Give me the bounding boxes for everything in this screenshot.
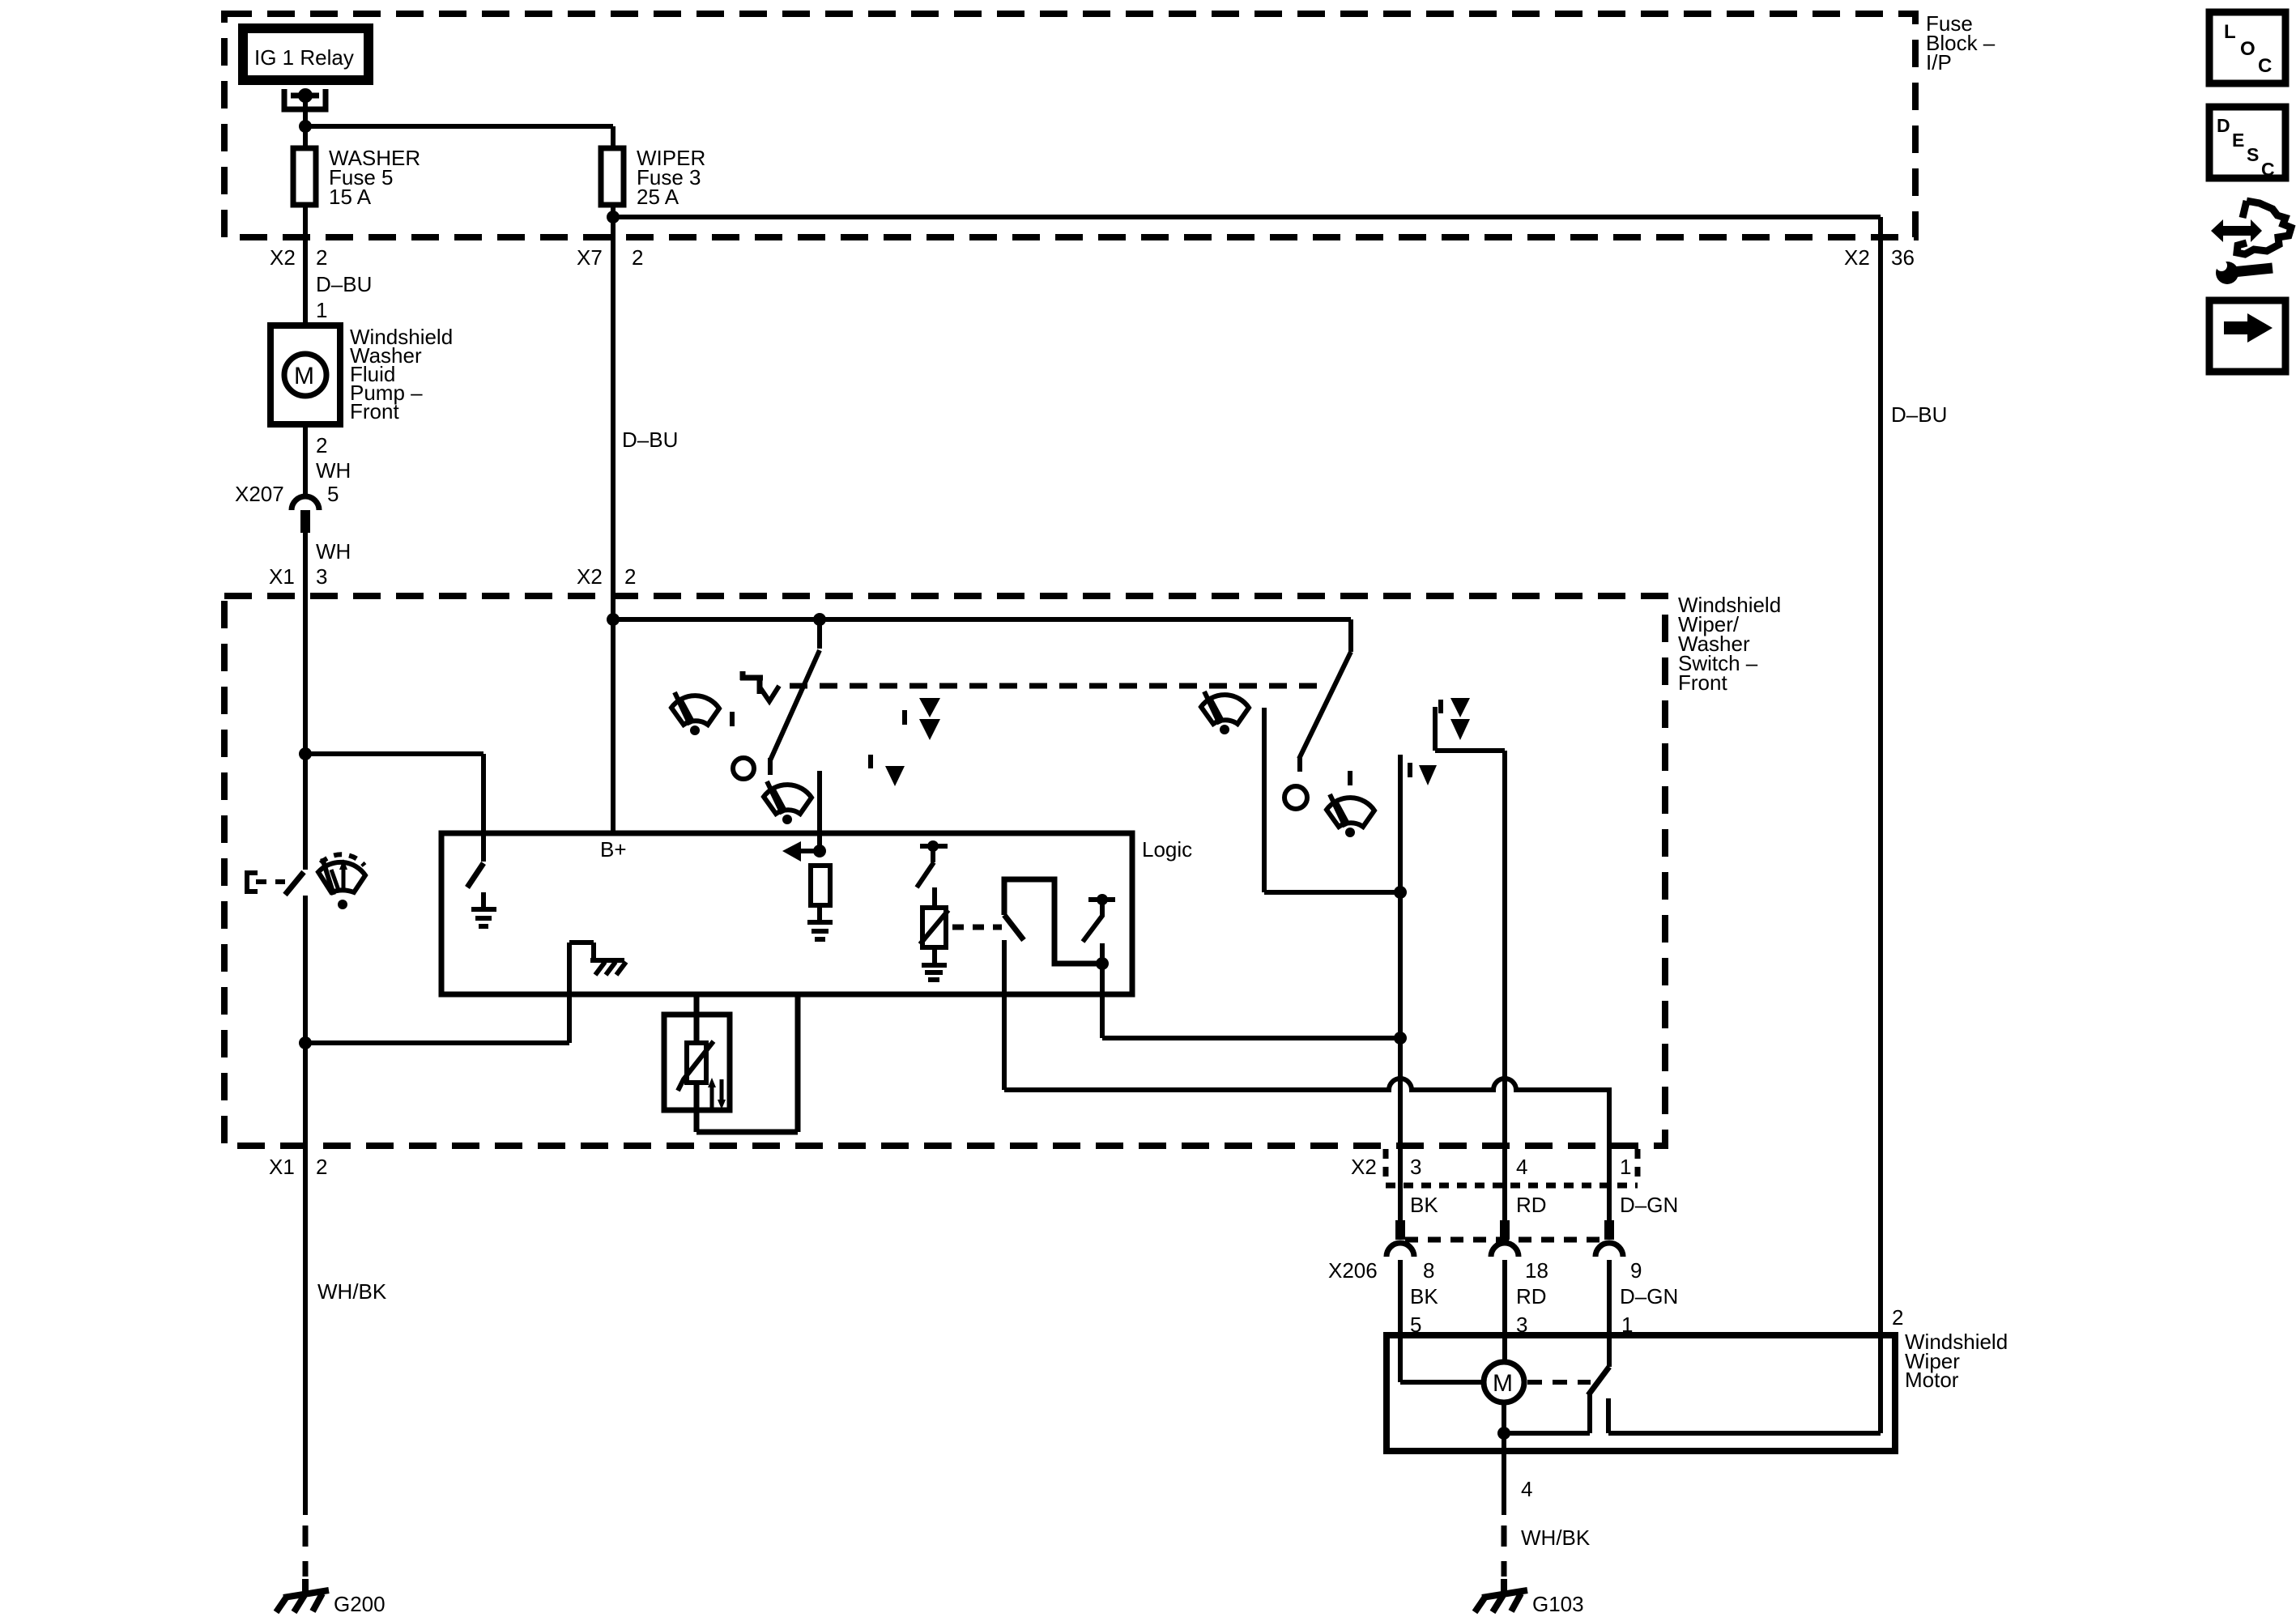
INT delay contact wire <box>817 771 822 851</box>
wiper icon mid <box>1201 691 1249 734</box>
svg-text:G200: G200 <box>334 1592 386 1616</box>
IG 1 Relay box <box>243 28 368 80</box>
wire pump to X207 <box>303 424 308 496</box>
node at fuse split <box>299 120 312 133</box>
svg-text:D–GN: D–GN <box>1620 1193 1678 1217</box>
windshield wiper motor box <box>1387 1335 1895 1451</box>
ground G103 <box>1475 1579 1527 1612</box>
wire run/park to pin3 wire <box>1102 964 1402 1038</box>
wire delay resistor return loop <box>696 993 798 1132</box>
svg-text:3: 3 <box>1410 1155 1421 1179</box>
position dash <box>1348 771 1352 785</box>
D-GN wire into park switch <box>1607 1335 1612 1367</box>
svg-text:X1: X1 <box>269 564 295 589</box>
wiper motor circle <box>1484 1362 1524 1402</box>
node washer branch <box>299 747 312 760</box>
svg-text:36: 36 <box>1891 245 1915 270</box>
wiper icon left of switch1 <box>671 692 719 735</box>
svg-text:X2: X2 <box>270 245 296 270</box>
variable delay resistor <box>922 908 946 947</box>
washer fluid pump box <box>270 326 340 424</box>
wire lower branch to logic ground hook <box>305 943 594 1043</box>
pin labels at switch top <box>269 564 636 589</box>
mode switch 1 blade <box>817 619 822 649</box>
park switch blade <box>1588 1367 1609 1395</box>
wire X207 to switch <box>303 533 308 596</box>
motor return wire <box>1504 1402 1590 1451</box>
svg-text:M: M <box>1493 1370 1513 1397</box>
ground G200 <box>276 1579 329 1612</box>
jump arrow icon <box>2209 300 2285 372</box>
cam wire to pin 1 with hops <box>1004 1079 1609 1240</box>
wash contact L wire <box>1264 708 1400 892</box>
LO contact wire <box>1398 755 1403 892</box>
LOC icon <box>2209 12 2285 83</box>
wire washer fuse down to pump <box>303 205 308 326</box>
svg-text:L: L <box>2224 21 2236 43</box>
OFF circle switch1 <box>733 758 754 779</box>
wiper icon right of switch2 <box>1327 794 1374 837</box>
fuse WASHER Fuse 5 <box>293 148 316 205</box>
svg-text:D: D <box>2217 115 2230 136</box>
svg-text:2: 2 <box>624 564 636 589</box>
washer signal switch in logic <box>467 863 483 887</box>
HI/LO position marker switch1 <box>902 710 907 725</box>
node lower branch <box>299 1036 312 1049</box>
washer switch blade <box>285 872 304 895</box>
svg-text:Front: Front <box>350 399 399 423</box>
pin labels under fuse block <box>270 245 1915 270</box>
node below wiper fuse <box>607 211 620 223</box>
pin labels X1 2 at switch bottom <box>269 1155 327 1179</box>
svg-text:D–BU: D–BU <box>316 272 372 296</box>
node mode switch pivot <box>813 613 826 626</box>
X2 connector at switch bottom <box>1386 1149 1638 1185</box>
delay switch in logic <box>920 844 948 849</box>
svg-text:X206: X206 <box>1328 1258 1378 1283</box>
ground under resistor <box>807 922 833 939</box>
svg-text:B+: B+ <box>600 837 627 862</box>
fuse block I/P dashed border <box>224 14 1915 237</box>
fuse block label <box>1926 11 1996 74</box>
svg-text:X2: X2 <box>1844 245 1870 270</box>
chassis ground in logic <box>590 960 626 975</box>
pump motor circle <box>284 354 326 396</box>
OFF circle switch2 <box>1284 786 1307 809</box>
svg-text:D–BU: D–BU <box>622 428 678 452</box>
svg-text:X207: X207 <box>235 482 284 506</box>
svg-text:2: 2 <box>316 1155 327 1179</box>
HI contact wire <box>1435 707 1505 1240</box>
svg-text:Motor: Motor <box>1905 1368 1959 1392</box>
svg-text:RD: RD <box>1516 1284 1547 1308</box>
svg-text:2: 2 <box>316 433 327 457</box>
logic box <box>441 833 1132 994</box>
svg-text:WH/BK: WH/BK <box>317 1279 387 1304</box>
svg-text:8: 8 <box>1423 1258 1434 1283</box>
wire to right D-BU drop <box>613 217 1881 1336</box>
svg-text:E: E <box>2232 130 2244 151</box>
dashed link to cam <box>952 925 1002 930</box>
svg-text:X1: X1 <box>269 1155 295 1179</box>
wire wiper fuse down into switch <box>611 205 616 596</box>
svg-text:2: 2 <box>316 245 327 270</box>
fuse WIPER Fuse 3 <box>601 148 624 205</box>
svg-text:X2: X2 <box>577 564 603 589</box>
svg-text:Logic: Logic <box>1142 837 1192 862</box>
svg-text:BK: BK <box>1410 1284 1438 1308</box>
MIST position marker <box>740 671 763 694</box>
switch label <box>1678 593 1781 695</box>
ground under delay resistor <box>922 965 947 980</box>
LO position marker <box>1408 763 1412 777</box>
svg-text:X7: X7 <box>577 245 603 270</box>
svg-text:C: C <box>2261 159 2275 180</box>
svg-text:G103: G103 <box>1532 1592 1584 1616</box>
ground under washer switch <box>471 892 496 926</box>
svg-text:1: 1 <box>316 298 327 322</box>
X206 inline connectors <box>1387 1220 1623 1257</box>
park wire to D-BU <box>1608 1336 1881 1433</box>
svg-text:3: 3 <box>316 564 327 589</box>
svg-text:C: C <box>2258 55 2272 77</box>
external delay resistor box <box>664 1015 730 1110</box>
svg-text:15 A: 15 A <box>329 185 372 209</box>
wiper icon below switch1 <box>764 781 811 824</box>
svg-text:O: O <box>2240 38 2256 60</box>
svg-text:2: 2 <box>1892 1305 1903 1330</box>
svg-text:18: 18 <box>1525 1258 1548 1283</box>
svg-text:IG 1 Relay: IG 1 Relay <box>254 45 354 70</box>
mechanical linkage dashed <box>790 683 1327 689</box>
wire WH down through switch <box>303 596 308 870</box>
svg-text:WH: WH <box>316 539 351 564</box>
washer wiper icon with dashed arc <box>318 854 365 892</box>
svg-text:1: 1 <box>1620 1155 1631 1179</box>
svg-text:5: 5 <box>327 482 339 506</box>
diagnostic icon <box>2211 201 2291 284</box>
svg-text:WH: WH <box>316 458 351 483</box>
svg-text:WH/BK: WH/BK <box>1521 1526 1591 1550</box>
DESC icon <box>2209 107 2285 178</box>
svg-text:M: M <box>294 363 314 389</box>
washer momentary contact E <box>247 873 258 891</box>
node B+ branch <box>607 613 620 626</box>
svg-text:RD: RD <box>1516 1193 1547 1217</box>
svg-text:25 A: 25 A <box>637 185 679 209</box>
svg-text:X2: X2 <box>1351 1155 1377 1179</box>
wire logic to external delay resistor <box>694 993 700 1045</box>
relay contact symbol <box>284 89 326 109</box>
wire colors <box>1410 1193 1678 1217</box>
wiper mode switch feed wire <box>613 619 1351 652</box>
position dash <box>730 712 735 726</box>
mode switch 2 blade <box>1299 652 1351 772</box>
variable delay resistor R <box>687 1043 706 1083</box>
svg-text:4: 4 <box>1521 1477 1532 1501</box>
pump label <box>350 325 453 423</box>
cam follower pentagon <box>1004 879 1100 964</box>
svg-text:4: 4 <box>1516 1155 1527 1179</box>
wire relay to fuses <box>305 96 613 148</box>
wire D-BU into switch, B+ feed <box>611 596 616 833</box>
adjust arrows up/down <box>710 1086 714 1108</box>
resistor in logic <box>811 866 830 905</box>
wires X206 to motor <box>1400 1260 1609 1335</box>
park contacts <box>1590 1394 1608 1433</box>
wiper position arrow <box>800 849 820 853</box>
windshield wiper/washer switch dashed border <box>224 596 1665 1146</box>
svg-text:D–BU: D–BU <box>1891 402 1947 427</box>
svg-text:S: S <box>2247 144 2259 165</box>
HI position marker <box>1438 700 1443 713</box>
svg-text:BK: BK <box>1410 1193 1438 1217</box>
INT position marker <box>868 755 873 768</box>
wire washer branch to logic <box>305 754 483 862</box>
svg-text:I/P: I/P <box>1926 50 1952 74</box>
svg-text:Front: Front <box>1678 670 1727 695</box>
motor internal wires <box>1400 1335 1484 1382</box>
svg-text:D–GN: D–GN <box>1620 1284 1678 1308</box>
park switch dashed link <box>1527 1380 1591 1385</box>
svg-text:9: 9 <box>1630 1258 1642 1283</box>
run/park switch in logic <box>1088 897 1115 902</box>
svg-text:2: 2 <box>632 245 643 270</box>
motor ground lead <box>1502 1451 1506 1515</box>
